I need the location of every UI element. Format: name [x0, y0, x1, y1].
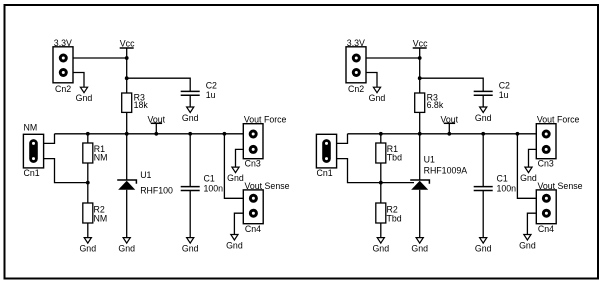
- connector Cn1: [316, 134, 336, 178]
- svg-text:Gnd: Gnd: [372, 244, 389, 254]
- connector Cn4: [536, 181, 582, 234]
- svg-text:NM: NM: [24, 123, 38, 133]
- resistor R1: [83, 143, 108, 163]
- resistor R1: [376, 143, 402, 163]
- svg-text:Gnd: Gnd: [182, 244, 199, 254]
- wire Cn1 pin1 to rail: [337, 134, 348, 144]
- svg-text:Cn2: Cn2: [55, 84, 71, 94]
- svg-text:1u: 1u: [499, 90, 509, 100]
- junction rail/R1: [379, 132, 383, 136]
- ground (R2): [372, 238, 389, 254]
- svg-text:RHF1009A: RHF1009A: [424, 166, 468, 176]
- svg-text:3.3V: 3.3V: [54, 38, 72, 48]
- wire rail to R1: [380, 134, 382, 143]
- ground (Cn4): [519, 235, 536, 251]
- svg-text:U1: U1: [424, 155, 435, 165]
- pin 2 of Cn3: [249, 145, 258, 154]
- svg-text:100n: 100n: [497, 184, 517, 194]
- wire Cn2 pin1 to Vcc rail: [73, 57, 127, 59]
- resistor R2: [376, 203, 402, 224]
- wire Vcc to R3: [126, 48, 128, 93]
- junction at Vcc and Cn2 wire: [125, 56, 129, 60]
- wire Vcc branch to C2: [420, 78, 484, 91]
- wire rail to C1: [189, 134, 191, 187]
- svg-text:NM: NM: [94, 214, 108, 224]
- svg-text:100n: 100n: [204, 184, 224, 194]
- wire Cn1 pin1 to rail: [44, 134, 55, 144]
- svg-text:Vout: Vout: [148, 114, 166, 124]
- svg-text:Gnd: Gnd: [118, 244, 135, 254]
- junction rail/Vout label: [447, 132, 451, 136]
- capacitor C1: [181, 174, 223, 194]
- svg-text:Gnd: Gnd: [226, 241, 243, 251]
- ground (Cn4): [226, 235, 243, 251]
- wire node to R2: [380, 183, 382, 203]
- svg-text:Vcc: Vcc: [120, 39, 135, 49]
- diode U1 RHF1009A: [410, 155, 467, 190]
- connector Cn3: [243, 115, 286, 169]
- svg-text:U1: U1: [140, 170, 151, 180]
- wire Vcc to R3: [419, 48, 421, 93]
- pin 1 of Cn4: [249, 194, 258, 203]
- svg-text:1u: 1u: [206, 90, 216, 100]
- wire C1 to ground: [189, 191, 191, 238]
- svg-text:Gnd: Gnd: [227, 173, 244, 183]
- ground (Cn2): [76, 87, 93, 103]
- resistor R2: [83, 203, 107, 224]
- svg-text:Vout Force: Vout Force: [537, 115, 580, 125]
- pin 2 of Cn4: [542, 209, 551, 218]
- svg-text:Gnd: Gnd: [369, 93, 386, 103]
- wire Cn4 pin2 to ground: [527, 213, 536, 234]
- wire R1 to node: [87, 163, 89, 183]
- svg-text:C2: C2: [499, 80, 510, 90]
- pin 1 of Cn4: [542, 194, 551, 203]
- pin 1 of Cn2: [352, 54, 361, 63]
- wire rail to R1: [87, 134, 89, 143]
- junction rail/C1: [188, 132, 192, 136]
- wire R2 to ground: [87, 223, 89, 238]
- connector Cn4: [243, 181, 289, 234]
- svg-text:Gnd: Gnd: [475, 244, 492, 254]
- ground (C1): [182, 238, 199, 254]
- junction rail/C1: [481, 132, 485, 136]
- ground (Cn2): [369, 87, 386, 103]
- wire C2 to ground: [482, 95, 484, 107]
- wire Cn2 pin2 to ground: [73, 73, 84, 88]
- capacitor C2: [181, 80, 217, 100]
- junction rail/Vout label: [154, 132, 158, 136]
- wire Cn4 pin2 to ground: [234, 213, 243, 234]
- junction rail/Cn4 branch: [223, 132, 227, 136]
- svg-text:Tbd: Tbd: [387, 214, 402, 224]
- svg-text:Cn2: Cn2: [348, 84, 364, 94]
- connector Cn2: [346, 38, 366, 94]
- junction rail/Cn4 branch: [516, 132, 520, 136]
- ground (R2): [79, 238, 96, 254]
- svg-text:RHF100: RHF100: [140, 186, 173, 196]
- svg-text:18k: 18k: [134, 100, 149, 110]
- svg-text:Gnd: Gnd: [475, 113, 492, 123]
- jumper bar Cn1: [29, 143, 38, 158]
- wire rail to U1: [419, 134, 421, 180]
- svg-text:Cn3: Cn3: [538, 159, 554, 169]
- svg-text:Cn1: Cn1: [317, 168, 333, 178]
- wire Vout rail: [55, 133, 244, 135]
- svg-text:Gnd: Gnd: [411, 244, 428, 254]
- svg-text:Gnd: Gnd: [519, 241, 536, 251]
- wire C1 to ground: [482, 191, 484, 238]
- svg-text:C1: C1: [204, 174, 215, 184]
- wire rail to C1: [482, 134, 484, 187]
- wire Cn1 pin2 to R1/R2 node: [337, 159, 381, 183]
- svg-text:C2: C2: [206, 80, 217, 90]
- pin 1 of Cn3: [542, 130, 551, 139]
- wire R3 to Vout rail: [126, 112, 128, 133]
- jumper bar Cn1: [322, 143, 331, 158]
- svg-text:Cn4: Cn4: [538, 224, 554, 234]
- pin 2 of Cn2: [352, 68, 361, 77]
- svg-text:NM: NM: [94, 153, 108, 163]
- wire Cn3 pin2 to ground: [236, 149, 244, 167]
- wire Vcc branch to C2: [127, 78, 191, 91]
- ground (Cn3): [520, 167, 537, 183]
- ground (C2): [475, 107, 492, 123]
- wire Cn2 pin1 to Vcc rail: [366, 57, 420, 59]
- ground (Cn3): [227, 167, 244, 183]
- connector Cn2: [53, 38, 73, 94]
- svg-text:Vout: Vout: [441, 114, 459, 124]
- svg-text:Cn4: Cn4: [245, 224, 261, 234]
- pin 2 of Cn3: [542, 145, 551, 154]
- svg-text:C1: C1: [497, 174, 508, 184]
- svg-text:Vout Sense: Vout Sense: [538, 181, 583, 191]
- junction rail/R1: [86, 132, 90, 136]
- junction at Vcc and C2 branch: [125, 76, 129, 80]
- wire Vout rail: [348, 133, 537, 135]
- wire rail to U1: [126, 134, 128, 180]
- wire R1 to node: [380, 163, 382, 183]
- pin 2 of Cn4: [249, 209, 258, 218]
- capacitor C1: [474, 174, 516, 194]
- junction rail/R3-U1: [418, 132, 422, 136]
- wire rail branch to Cn4: [224, 134, 243, 199]
- wire U1 to ground: [419, 190, 421, 238]
- wire node to U1 reference: [381, 182, 414, 184]
- resistor R3: [122, 93, 149, 113]
- pin 2 of Cn2: [59, 68, 68, 77]
- ground (C2): [182, 107, 199, 123]
- connector Cn1: [23, 123, 43, 178]
- wire U1 to ground: [126, 190, 128, 238]
- svg-text:Vout Sense: Vout Sense: [245, 181, 290, 191]
- pin 1 of Cn2: [59, 54, 68, 63]
- wire C2 to ground: [189, 95, 191, 107]
- svg-text:Cn1: Cn1: [24, 168, 40, 178]
- junction rail/R3-U1: [125, 132, 129, 136]
- ground (U1): [118, 238, 135, 254]
- svg-text:6.8k: 6.8k: [427, 100, 444, 110]
- connector Cn3: [536, 115, 579, 169]
- power symbol Vcc: [413, 39, 428, 49]
- junction R1/R2/Cn1: [379, 181, 383, 185]
- resistor R3: [415, 93, 444, 113]
- svg-text:Cn3: Cn3: [245, 159, 261, 169]
- wire Cn2 pin2 to ground: [366, 73, 377, 88]
- svg-text:Gnd: Gnd: [520, 173, 537, 183]
- capacitor C2: [474, 80, 510, 100]
- svg-text:Vout Force: Vout Force: [244, 115, 287, 125]
- node Vout: [441, 114, 459, 134]
- svg-text:3.3V: 3.3V: [347, 38, 365, 48]
- svg-text:Vcc: Vcc: [413, 39, 428, 49]
- wire R2 to ground: [380, 223, 382, 238]
- wire R3 to Vout rail: [419, 112, 421, 133]
- junction at Vcc and Cn2 wire: [418, 56, 422, 60]
- ground (U1): [411, 238, 428, 254]
- pin 1 of Cn3: [249, 130, 258, 139]
- wire node to R2: [87, 183, 89, 203]
- svg-text:Gnd: Gnd: [79, 244, 96, 254]
- wire Cn3 pin2 to ground: [529, 149, 537, 167]
- svg-text:Tbd: Tbd: [387, 153, 402, 163]
- power symbol Vcc: [120, 39, 135, 49]
- ground (C1): [475, 238, 492, 254]
- diode U1 RHF100: [117, 170, 173, 196]
- wire Cn1 pin2 to R1/R2 node: [44, 159, 88, 183]
- wire rail branch to Cn4: [517, 134, 536, 199]
- svg-text:Gnd: Gnd: [182, 113, 199, 123]
- junction R1/R2/Cn1: [86, 181, 90, 185]
- svg-text:Gnd: Gnd: [76, 93, 93, 103]
- node Vout: [148, 114, 166, 134]
- junction at Vcc and C2 branch: [418, 76, 422, 80]
